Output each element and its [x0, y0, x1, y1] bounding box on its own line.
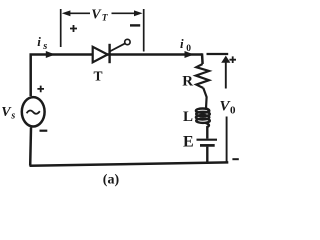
- svg-text:i: i: [37, 34, 41, 49]
- svg-text:(a): (a): [103, 173, 120, 188]
- svg-text:s: s: [42, 41, 47, 52]
- svg-text:i: i: [180, 36, 184, 51]
- svg-text:s: s: [10, 111, 15, 122]
- svg-text:0: 0: [230, 104, 236, 116]
- svg-text:L: L: [183, 109, 193, 125]
- svg-text:T: T: [94, 68, 103, 83]
- svg-text:0: 0: [186, 44, 191, 54]
- svg-text:R: R: [182, 74, 193, 90]
- svg-text:V: V: [91, 8, 102, 23]
- svg-text:T: T: [102, 13, 109, 23]
- svg-text:E: E: [183, 133, 194, 150]
